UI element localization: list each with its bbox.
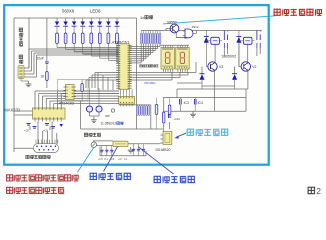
node small junction circle bbox=[111, 109, 114, 112]
transistor Q1 S8550 bbox=[166, 24, 179, 33]
resistor R1 560 bbox=[56, 33, 119, 48]
annotation line first voltage (indigo) bbox=[104, 146, 118, 171]
svg-text:V2: V2 bbox=[252, 65, 256, 69]
svg-text:MAX232: MAX232 bbox=[4, 108, 21, 113]
wire MAX232 to serial bbox=[30, 122, 57, 144]
resistor network RN2 bbox=[136, 105, 149, 116]
label 3-terminal regulator (cyan CJK) bbox=[187, 129, 228, 135]
svg-text:560X8: 560X8 bbox=[62, 9, 75, 14]
AC source X1 bbox=[91, 140, 96, 147]
node AT24C02 box bbox=[58, 80, 89, 101]
7-segment display DS2 bbox=[176, 45, 190, 72]
resistor R7 560 bbox=[107, 33, 119, 60]
capacitor IC4 bbox=[194, 98, 203, 112]
LED D8 bbox=[115, 18, 120, 33]
capacitor C10 bbox=[163, 112, 181, 123]
diode D10 bbox=[236, 31, 241, 67]
svg-text:P0=00H: P0=00H bbox=[145, 81, 156, 85]
svg-text:+C5 0.1 +C6 +C7 0.1: +C5 0.1 +C6 +C7 0.1 bbox=[98, 157, 128, 161]
wire regulator column bbox=[164, 98, 170, 132]
wire bus MCU P0 to resistor network bbox=[129, 44, 160, 63]
label serial header (CJK) bbox=[26, 155, 50, 158]
ground keypad bbox=[21, 79, 32, 87]
capacitor C 10uF bbox=[45, 62, 49, 64]
resistor R2 560 bbox=[64, 33, 118, 50]
label figure 2 bbox=[308, 186, 321, 196]
resistor R6 560 bbox=[98, 33, 118, 58]
resistor R4 560 bbox=[81, 33, 118, 54]
IC U5 AT24C02 bbox=[63, 85, 76, 100]
resistor R10 bbox=[81, 80, 83, 101]
diode D13 bbox=[60, 124, 64, 127]
op-amp U1 AT89C51 MCU bbox=[116, 44, 132, 90]
svg-text:AT24C02: AT24C02 bbox=[59, 102, 74, 106]
label keypad 2 (vertical CJK) bbox=[19, 55, 23, 63]
wire arrow from Q1 bbox=[176, 33, 187, 39]
IC U6 header bbox=[119, 89, 135, 106]
label power socket (CJK) bbox=[84, 133, 101, 136]
capacitor C12 bbox=[33, 127, 37, 129]
svg-text:30P: 30P bbox=[105, 114, 110, 118]
wire VCC drop right of MCU bbox=[136, 18, 138, 129]
wire emitters down bbox=[177, 48, 260, 111]
wire bus MAX232 to MCU bbox=[35, 91, 119, 106]
resistor R12 bbox=[168, 98, 171, 115]
annotation line to AC input (cyan) bbox=[78, 148, 94, 173]
LED D5 bbox=[89, 18, 94, 33]
resistor network RN1 bbox=[140, 31, 160, 45]
crystal Y1 circles bbox=[86, 88, 102, 116]
transistor Q3 V2 bbox=[241, 62, 256, 71]
relay contacts K1 bbox=[224, 31, 227, 49]
connector J2 serial DB9 bbox=[34, 140, 59, 153]
LED D4 bbox=[80, 18, 85, 33]
wire inner frame left rail bbox=[13, 18, 15, 152]
svg-text:S8050X2: S8050X2 bbox=[222, 55, 237, 59]
resistor R3 560 bbox=[73, 33, 119, 52]
relay coil K1 bbox=[206, 37, 222, 44]
svg-text:2: 2 bbox=[316, 186, 321, 196]
ground right rails bbox=[190, 111, 196, 117]
wire right rails bbox=[163, 89, 248, 111]
resistor R5 560 bbox=[90, 33, 119, 56]
wire keypad bus to MCU bbox=[24, 18, 119, 77]
LED D6 bbox=[97, 18, 102, 33]
LED D3 bbox=[72, 18, 77, 33]
wire bus left of MCU P3 bbox=[86, 73, 119, 91]
ground power bbox=[128, 147, 134, 153]
wire frame to serial bbox=[14, 147, 34, 149]
svg-text:LED8: LED8 bbox=[90, 9, 101, 14]
wire RN2 rail bbox=[119, 105, 151, 129]
wire coil K2 to collector bbox=[247, 44, 249, 62]
capacitors C5-C7 input filter bbox=[100, 146, 113, 156]
label first voltage group (blue CJK) bbox=[90, 173, 130, 179]
wire reset column bbox=[46, 18, 48, 88]
svg-text:+C10: +C10 bbox=[173, 117, 180, 121]
label AC rectified line1 (red CJK) bbox=[7, 175, 79, 181]
svg-text:4S12: 4S12 bbox=[192, 25, 199, 29]
svg-text:+C8: +C8 bbox=[24, 129, 29, 133]
diode D11 bbox=[200, 74, 205, 89]
resistor R9 1K bbox=[46, 72, 49, 81]
resistor R11 bbox=[155, 98, 158, 130]
label DC working power (red CJK) bbox=[274, 9, 321, 15]
capacitor C11 bbox=[27, 124, 31, 126]
annotation arrow regulator (indigo) bbox=[174, 133, 186, 138]
svg-text:IC4: IC4 bbox=[198, 101, 203, 105]
ground crystal bbox=[91, 117, 97, 123]
bridge rectifier B1 bbox=[113, 141, 128, 146]
svg-text:1c: 1c bbox=[140, 15, 144, 20]
gate U2 bbox=[183, 29, 197, 38]
wire top VCC rail bbox=[14, 17, 137, 19]
wire bus 7seg to transistor area bbox=[129, 62, 196, 80]
connector J1 keypad bbox=[18, 66, 24, 79]
IC U4 MAX232 bbox=[33, 106, 66, 122]
diode D12 bbox=[232, 74, 237, 89]
capacitor IC3 bbox=[180, 98, 189, 112]
relay contacts K2 bbox=[257, 31, 260, 49]
7-segment display DS1 bbox=[161, 45, 175, 72]
wire base V2 bbox=[235, 43, 241, 74]
wire coil K1 to collector bbox=[214, 44, 216, 62]
svg-text:10uF: 10uF bbox=[37, 57, 44, 61]
resistor R8 560 bbox=[116, 33, 119, 63]
svg-text:DS18B20: DS18B20 bbox=[156, 148, 171, 152]
label two-digit display (CJK small) bbox=[140, 65, 159, 67]
wire VCC rail right section bbox=[141, 30, 262, 32]
svg-text:11.0592/12: 11.0592/12 bbox=[101, 122, 117, 126]
wire power rail mid bbox=[81, 101, 163, 129]
label keypad (vertical CJK) bbox=[19, 28, 23, 46]
wire base V3 bbox=[202, 67, 208, 74]
wire 7seg top rail bbox=[160, 44, 189, 46]
capacitor C13 bbox=[45, 124, 49, 126]
wire frame to MAX232 bbox=[14, 111, 33, 115]
LED D7 bbox=[106, 18, 111, 33]
label crystal 11.0592 bbox=[101, 122, 124, 126]
capacitors C8-C9 output filter bbox=[132, 144, 145, 156]
wire power top rails bbox=[94, 141, 113, 146]
label 1c network bbox=[140, 15, 153, 20]
capacitor C14 bbox=[51, 127, 55, 129]
schematic border frame bbox=[4, 5, 269, 165]
svg-text:V3: V3 bbox=[219, 65, 223, 69]
svg-text:IC3: IC3 bbox=[184, 101, 189, 105]
wire power output bbox=[100, 144, 160, 156]
annotation line to DC power supply (cyan) bbox=[163, 16, 276, 24]
voltage regulator U3 7805 bbox=[160, 132, 171, 145]
LED D2 bbox=[63, 18, 68, 33]
label AC rectified line2 (red CJK) bbox=[7, 187, 65, 193]
annotation line second voltage (indigo) bbox=[138, 147, 173, 174]
label second voltage group (blue CJK) bbox=[154, 176, 194, 182]
transistor Q2 V3 bbox=[208, 62, 223, 71]
relay coil K2 bbox=[239, 37, 255, 44]
diode D9 bbox=[204, 31, 209, 67]
LED D1 bbox=[55, 18, 60, 33]
